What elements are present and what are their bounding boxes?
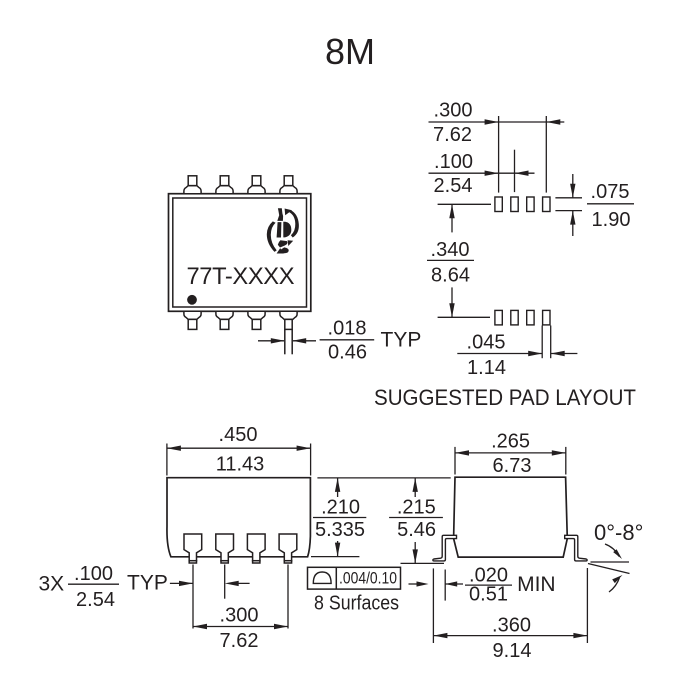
dimension .360/9.14 (433, 568, 587, 643)
flatness callout box (308, 567, 401, 589)
svg-text:TYP: TYP (127, 572, 168, 595)
svg-text:.210: .210 (321, 496, 360, 518)
svg-text:5.335: 5.335 (315, 519, 365, 541)
svg-text:.300: .300 (434, 99, 473, 121)
dimension .210/5.335 (311, 478, 451, 557)
svg-text:8.64: 8.64 (431, 264, 470, 286)
top view body outer (169, 194, 311, 312)
dimension .300/7.62 front (193, 626, 288, 628)
bottom pin 2 (216, 311, 233, 329)
dimension .045/1.14 (457, 326, 577, 359)
svg-text:SUGGESTED PAD LAYOUT: SUGGESTED PAD LAYOUT (374, 385, 636, 410)
front lead 3 (247, 534, 265, 563)
svg-text:.300: .300 (220, 605, 259, 627)
svg-text:.215: .215 (397, 496, 436, 518)
bottom pin 3 (248, 311, 265, 329)
svg-text:3X: 3X (39, 573, 65, 596)
side right lead (565, 535, 587, 561)
svg-text:.360: .360 (492, 615, 531, 637)
top pin 3 (248, 176, 265, 194)
svg-text:.450: .450 (219, 424, 258, 446)
pin 4 lead extension (285, 329, 292, 354)
svg-text:.340: .340 (431, 239, 470, 261)
svg-text:1.90: 1.90 (592, 209, 631, 231)
svg-text:11.43: 11.43 (216, 454, 265, 476)
dimension .215/5.46 (401, 478, 445, 564)
svg-text:0.46: 0.46 (328, 342, 367, 364)
top pin 4 (280, 176, 297, 194)
svg-text:8M: 8M (325, 31, 375, 72)
svg-text:.018: .018 (328, 318, 367, 340)
svg-text:9.14: 9.14 (493, 640, 532, 662)
svg-text:7.62: 7.62 (433, 124, 472, 146)
dimension .075/1.90 (555, 174, 582, 236)
top pin 1 (184, 176, 201, 194)
dimension .340/8.64 (438, 204, 491, 317)
svg-text:77T-XXXX: 77T-XXXX (187, 264, 295, 290)
extension lines pad centers (499, 116, 547, 193)
svg-text:7.62: 7.62 (220, 630, 259, 652)
svg-text:.100: .100 (74, 563, 113, 585)
side view body (454, 477, 568, 557)
dimension .020/0.51 MIN (409, 570, 464, 601)
front lead 1 (184, 534, 202, 563)
logo YDS (267, 208, 299, 253)
svg-text:0.51: 0.51 (469, 583, 508, 605)
dimension .265/6.73 (455, 447, 566, 475)
svg-text:0°-8°: 0°-8° (594, 520, 643, 545)
dimension .450/11.43 (167, 444, 311, 476)
svg-text:6.73: 6.73 (493, 455, 532, 477)
svg-text:.004/0.10: .004/0.10 (339, 570, 397, 588)
flatness symbol (313, 572, 331, 583)
front lead 2 (216, 534, 234, 563)
svg-text:.045: .045 (467, 332, 506, 354)
svg-text:.265: .265 (491, 431, 530, 453)
top view body inner (173, 198, 307, 307)
svg-text:2.54: 2.54 (76, 589, 115, 611)
svg-text:2.54: 2.54 (434, 175, 473, 197)
bottom pin 4 with long lead (280, 311, 297, 329)
front lead 4 (279, 534, 297, 563)
pin 1 dot (187, 295, 197, 305)
svg-text:.075: .075 (591, 181, 630, 203)
pads row 2 (495, 310, 550, 325)
bottom pin 1 (184, 311, 201, 329)
svg-text:MIN: MIN (517, 573, 556, 596)
dimension .018/0.46 TYP (258, 340, 316, 342)
svg-text:8 Surfaces: 8 Surfaces (314, 592, 399, 615)
pads row 1 (495, 197, 550, 212)
top pin 2 (216, 176, 233, 194)
svg-text:.100: .100 (434, 151, 473, 173)
svg-text:TYP: TYP (381, 328, 422, 351)
side left lead (433, 535, 457, 561)
front view body (167, 478, 310, 557)
svg-text:1.14: 1.14 (467, 357, 506, 379)
svg-text:5.46: 5.46 (397, 519, 436, 541)
